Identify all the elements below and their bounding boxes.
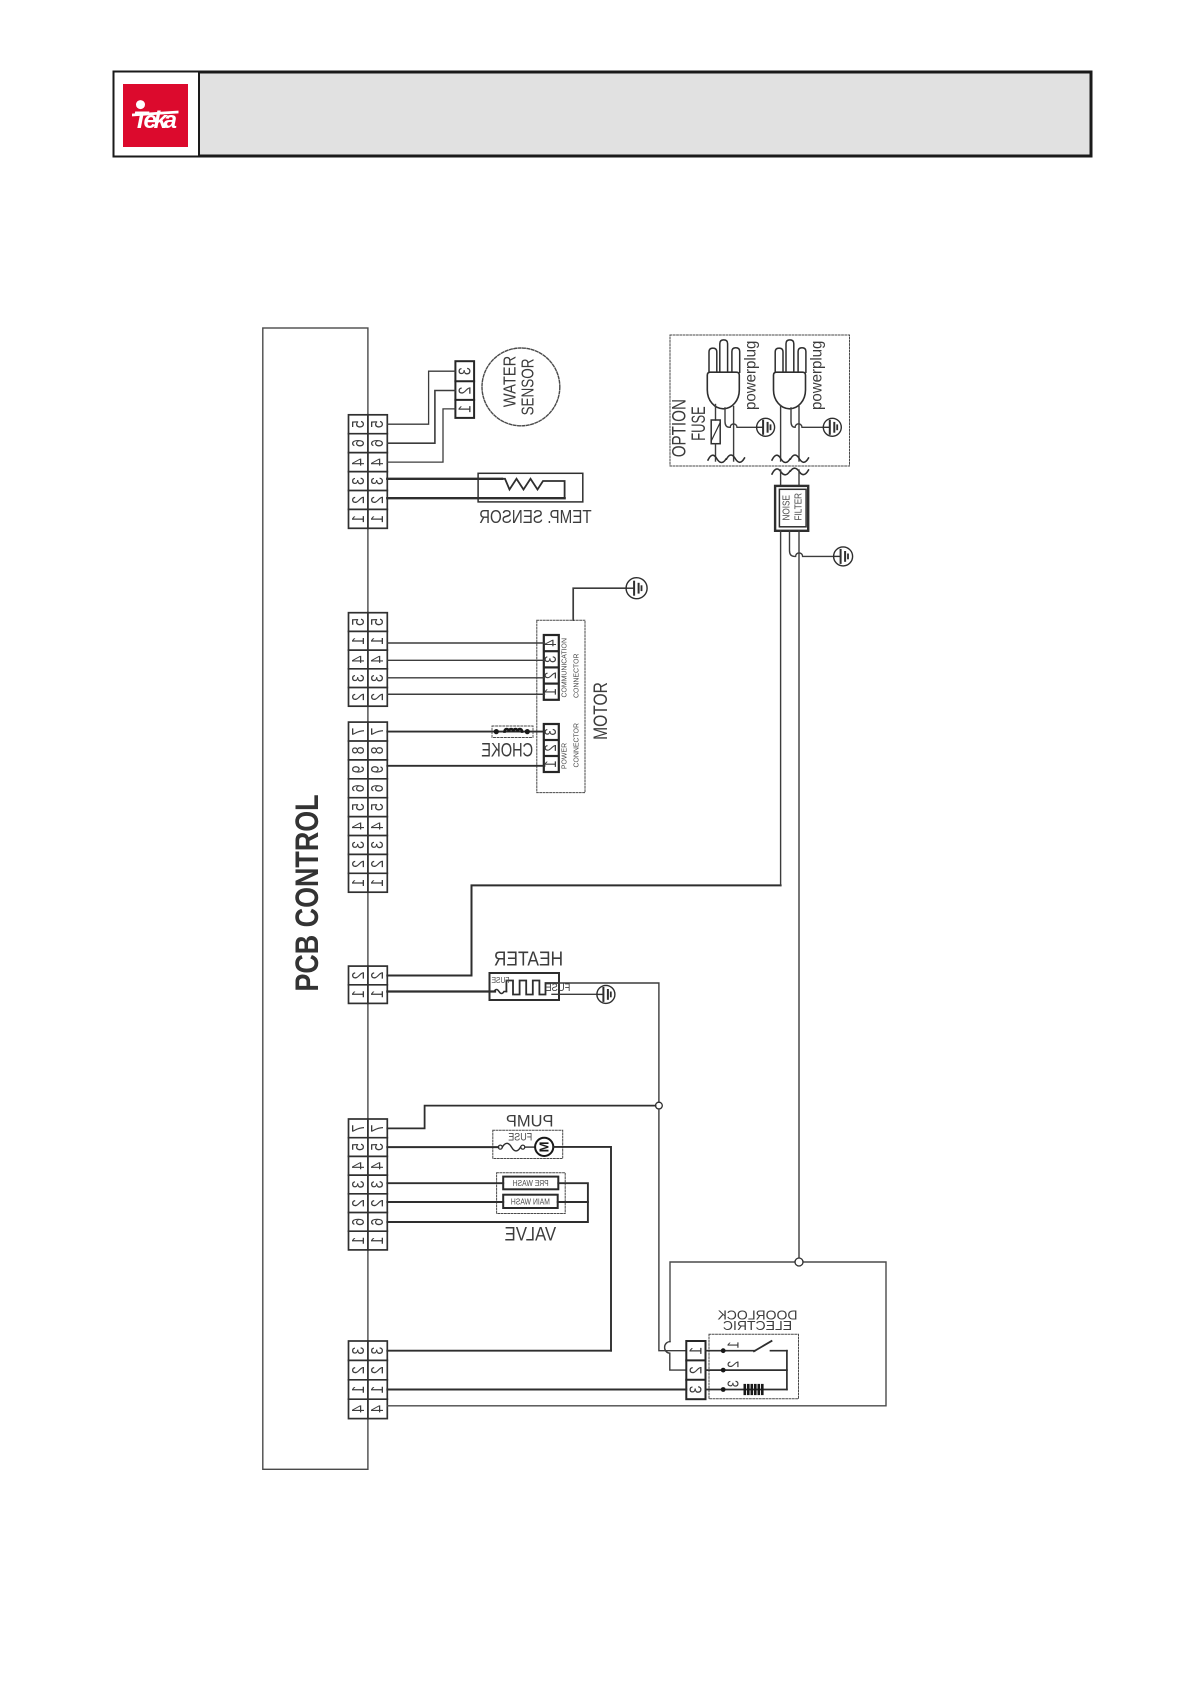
comm connector pin 1: [542, 688, 560, 695]
motor power connector (3 pins): [544, 724, 559, 772]
comm connector pin 4: [542, 640, 560, 647]
CN-D (heater) pin label 2 (board side): [348, 972, 368, 980]
wire CN-C pin9 to power pin1: [387, 765, 544, 767]
connector CN-D (heater) on PCB edge: [349, 966, 388, 1003]
CN-A (sensors) pin label 2 (board side): [348, 496, 368, 504]
label FUSE (heater right): [545, 982, 570, 994]
wire CN-B pin3 to comm pin2: [387, 677, 544, 679]
ground (powerplug 1): [757, 418, 775, 436]
svg-text:3: 3: [368, 1347, 388, 1355]
label CONNECTOR (power): [572, 723, 580, 768]
comm connector pin 2: [542, 672, 560, 679]
powerplug2 neutral lead: [798, 407, 800, 462]
motor communication connector (4 pins): [544, 635, 559, 700]
label WATER (water sensor): [500, 356, 519, 407]
doorlock pin label 1: [725, 1341, 743, 1348]
svg-text:6: 6: [368, 439, 388, 447]
Teka logo overline: [132, 111, 179, 117]
CN-B (motor communication) pin label 1 (cable side): [368, 637, 388, 645]
label FUSE (option): [689, 406, 710, 441]
svg-text:4: 4: [348, 656, 368, 664]
CN-A (sensors) pin label 4 (board side): [348, 458, 368, 466]
CN-D (heater) pin label 2 (cable side): [368, 972, 388, 980]
motor dashed enclosure: [537, 620, 585, 792]
powerplug1 lead below fuse: [715, 444, 717, 461]
svg-text:3: 3: [368, 1181, 388, 1189]
doorlock pin label 3: [725, 1380, 743, 1387]
CN-C (motor power / choke) pin label 6 (board side): [348, 784, 368, 792]
svg-text:4: 4: [348, 458, 368, 466]
doorlock connector pin 2: [686, 1366, 706, 1374]
svg-text:3: 3: [725, 1380, 743, 1387]
svg-text:5: 5: [368, 618, 388, 626]
svg-text:5: 5: [368, 1143, 388, 1151]
svg-text:Teka: Teka: [133, 107, 177, 134]
svg-text:3: 3: [348, 1347, 368, 1355]
svg-text:4: 4: [348, 1162, 368, 1170]
svg-text:7: 7: [348, 728, 368, 736]
CN-C (motor power / choke) pin label 5 (cable side): [368, 803, 388, 811]
junction node heater/pump feed: [656, 1102, 663, 1109]
CN-A (sensors) pin label 2 (cable side): [368, 496, 388, 504]
svg-text:WATER: WATER: [500, 356, 519, 407]
CN-B (motor communication) pin label 4 (cable side): [368, 656, 388, 664]
svg-text:1: 1: [348, 515, 368, 523]
label PRE WASH: [513, 1178, 549, 1188]
label NOISE: [781, 495, 792, 520]
svg-text:2: 2: [368, 1199, 388, 1207]
svg-text:POWER: POWER: [560, 743, 568, 769]
pump motor letter M: [537, 1141, 552, 1152]
powerplug1 line lead: [715, 405, 717, 421]
label powerplug (2): [808, 341, 826, 410]
svg-text:5: 5: [368, 420, 388, 428]
wire CN-C pin7 through choke to power pin3: [387, 731, 544, 733]
CN-E (pump / valve) pin label 2 (board side): [348, 1199, 368, 1207]
svg-text:powerplug: powerplug: [808, 341, 826, 410]
svg-text:PCB CONTROL: PCB CONTROL: [290, 794, 326, 991]
CN-D (heater) pin label 1 (cable side): [368, 990, 388, 998]
svg-text:1: 1: [368, 1237, 388, 1245]
CN-F (doorlock) pin label 4 (cable side): [368, 1405, 388, 1413]
wire noise filter to heater junction: [780, 531, 782, 886]
svg-text:2: 2: [348, 496, 368, 504]
CN-B (motor communication) pin label 3 (cable side): [368, 674, 388, 682]
svg-text:3: 3: [348, 674, 368, 682]
powerplug1 neutral lead: [733, 407, 735, 462]
svg-text:4: 4: [348, 822, 368, 830]
option fuse dashed box: [670, 335, 850, 466]
ground (noise filter): [834, 547, 853, 566]
CN-C (motor power / choke) pin label 3 (cable side): [368, 841, 388, 849]
powerplug 1 (option) prong right: [732, 348, 740, 373]
label TEMP. SENSOR: [479, 507, 592, 528]
choke terminal dot left: [494, 729, 499, 734]
CN-A (sensors) pin label 4 (cable side): [368, 458, 388, 466]
wire CN-E pin2 to main wash: [387, 1201, 503, 1203]
doorlock connector pin 1: [686, 1347, 706, 1355]
wire CN-E pin3 to pre wash: [387, 1182, 503, 1184]
CN-E (pump / valve) pin label 4 (cable side): [368, 1162, 388, 1170]
svg-text:1: 1: [368, 515, 388, 523]
svg-text:OPTION: OPTION: [668, 399, 690, 457]
wire CN-F pin1 to doorlock pin3: [387, 1389, 686, 1391]
CN-E (pump / valve) pin label 1 (board side): [348, 1237, 368, 1245]
CN-C (motor power / choke) pin label 8 (cable side): [368, 747, 388, 755]
heater thermal fuse symbol: [494, 990, 506, 994]
ground (heater): [597, 985, 615, 1003]
svg-text:1: 1: [725, 1341, 743, 1348]
water sensor body circle: [482, 348, 560, 426]
svg-text:8: 8: [348, 747, 368, 755]
Teka logo dot: [136, 100, 145, 109]
connector CN-E (pump / valve) on PCB edge: [349, 1119, 388, 1250]
svg-text:7: 7: [368, 1124, 388, 1132]
svg-text:2: 2: [348, 1199, 368, 1207]
water sensor connector pin 3: [455, 367, 475, 375]
svg-text:3: 3: [542, 656, 560, 663]
doorlock pin1 contact line: [706, 1350, 756, 1352]
doorlock pin2 dot: [721, 1368, 726, 1373]
powerplug 2 prong middle: [786, 340, 794, 372]
svg-text:PUMP: PUMP: [506, 1112, 554, 1130]
powerplug 2 prong left: [775, 348, 783, 372]
svg-text:4: 4: [368, 458, 388, 466]
pump fuse symbol: [498, 1145, 502, 1149]
svg-text:2: 2: [368, 1366, 388, 1374]
choke coil: [505, 729, 523, 732]
noise filter earth branch: [790, 531, 834, 557]
wire CN-E pin5 to pump fuse: [387, 1146, 498, 1148]
CN-E (pump / valve) pin label 5 (board side): [348, 1143, 368, 1151]
svg-text:6: 6: [368, 1218, 388, 1226]
mains cord into noise filter (left): [780, 470, 782, 486]
electric doorlock box: [387, 1262, 886, 1406]
powerplug2 earth lead to ground: [791, 408, 823, 427]
svg-text:1: 1: [368, 637, 388, 645]
connector CN-B (motor communication) on PCB edge: [349, 613, 388, 707]
svg-text:5: 5: [348, 420, 368, 428]
label FILTER: [793, 493, 804, 521]
label PCB CONTROL: [290, 794, 326, 991]
svg-text:5: 5: [348, 618, 368, 626]
CN-E (pump / valve) pin label 6 (board side): [348, 1218, 368, 1226]
label FUSE (pump): [508, 1132, 532, 1144]
CN-C (motor power / choke) pin label 8 (board side): [348, 747, 368, 755]
powerplug2 cable break: [772, 455, 809, 463]
svg-text:5: 5: [348, 1143, 368, 1151]
svg-text:1: 1: [348, 1237, 368, 1245]
connector CN-C (motor power / choke) on PCB edge: [349, 722, 388, 892]
wire heater to doorlock feed: [559, 983, 659, 1106]
mains cord break below option box: [772, 468, 809, 475]
noise filter inner box: [779, 489, 806, 527]
svg-text:FILTER: FILTER: [793, 493, 804, 521]
water sensor connector pin 2: [455, 387, 475, 395]
doorlock switch blade: [754, 1341, 772, 1351]
CN-C (motor power / choke) pin label 9 (cable side): [368, 765, 388, 773]
CN-B (motor communication) pin label 5 (board side): [348, 618, 368, 626]
doorlock pin1 fixed contact to bar: [771, 1350, 787, 1352]
svg-text:2: 2: [348, 972, 368, 980]
wire node down to doorlock pin1: [659, 1109, 686, 1351]
svg-text:4: 4: [348, 1405, 368, 1413]
svg-text:7: 7: [348, 1124, 368, 1132]
motor earth wire: [573, 588, 626, 620]
wire CN-A pin6 to water sensor pin2: [387, 391, 455, 444]
wire pump to doorlock pin3 riser: [553, 1147, 611, 1351]
svg-text:1: 1: [368, 879, 388, 887]
svg-text:FUSE: FUSE: [689, 406, 710, 441]
valve common return wire to CN-E pin6: [387, 1183, 588, 1222]
doorlock right bar: [786, 1351, 788, 1390]
doorlock pin label 2: [725, 1361, 743, 1368]
CN-C (motor power / choke) pin label 7 (cable side): [368, 728, 388, 736]
powerplug 1 (option) prong middle: [720, 340, 728, 372]
svg-text:6: 6: [348, 1218, 368, 1226]
CN-C (motor power / choke) pin label 1 (board side): [348, 879, 368, 887]
CN-C (motor power / choke) pin label 9 (board side): [348, 765, 368, 773]
svg-text:1: 1: [348, 879, 368, 887]
svg-text:9: 9: [348, 765, 368, 773]
svg-text:4: 4: [368, 1162, 388, 1170]
powerplug1 earth lead to ground: [725, 408, 757, 427]
heater element: [506, 981, 559, 995]
ground (motor frame): [626, 578, 647, 599]
CN-C (motor power / choke) pin label 6 (cable side): [368, 784, 388, 792]
label PUMP: [506, 1112, 554, 1130]
power connector pin 3: [542, 728, 560, 735]
CN-D (heater) pin label 1 (board side): [348, 990, 368, 998]
CN-B (motor communication) pin label 2 (board side): [348, 693, 368, 701]
CN-F (doorlock) pin label 1 (board side): [348, 1386, 368, 1394]
powerplug 2 prong right: [798, 348, 806, 373]
svg-text:COMMUNICATION: COMMUNICATION: [560, 638, 568, 698]
label OPTION: [668, 399, 690, 457]
CN-A (sensors) pin label 1 (board side): [348, 515, 368, 523]
svg-text:1: 1: [348, 637, 368, 645]
CN-A (sensors) pin label 5 (cable side): [368, 420, 388, 428]
comm connector pin 3: [542, 656, 560, 663]
wire node to CN-E pin7: [387, 1106, 655, 1129]
label VALVE: [505, 1223, 557, 1244]
CN-A (sensors) pin label 5 (board side): [348, 420, 368, 428]
power connector pin 1: [542, 760, 560, 767]
wire CN-B pin1 to comm pin4: [387, 642, 544, 644]
wire CN-A pin2 to temp sensor (bottom lead): [387, 497, 564, 499]
svg-text:5: 5: [368, 803, 388, 811]
svg-text:3: 3: [348, 1181, 368, 1189]
label SENSOR (water sensor): [519, 359, 538, 416]
doorlock connector (3 pins): [686, 1341, 705, 1399]
label MAIN WASH: [511, 1197, 550, 1207]
wire CN-A pin5 to water sensor pin3: [387, 371, 455, 424]
doorlock pin3 dot: [721, 1387, 726, 1392]
CN-F (doorlock) pin label 3 (cable side): [368, 1347, 388, 1355]
powerplug1 cable break: [708, 455, 745, 463]
label powerplug (1): [742, 341, 760, 410]
CN-E (pump / valve) pin label 7 (board side): [348, 1124, 368, 1132]
CN-A (sensors) pin label 3 (cable side): [368, 477, 388, 485]
powerplug 1 (option) body: [707, 372, 739, 409]
CN-C (motor power / choke) pin label 2 (board side): [348, 860, 368, 868]
doorlock connector pin 3: [686, 1386, 706, 1394]
svg-text:MAIN WASH: MAIN WASH: [511, 1197, 550, 1207]
CN-A (sensors) pin label 1 (cable side): [368, 515, 388, 523]
powerplug2 line lead: [780, 406, 782, 462]
svg-text:2: 2: [368, 693, 388, 701]
svg-text:3: 3: [455, 367, 475, 375]
svg-text:NOISE: NOISE: [781, 495, 792, 520]
svg-text:3: 3: [368, 841, 388, 849]
CN-C (motor power / choke) pin label 5 (board side): [348, 803, 368, 811]
pump motor circle: [535, 1138, 553, 1156]
CN-F (doorlock) pin label 4 (board side): [348, 1405, 368, 1413]
doorlock pin3 line: [706, 1389, 787, 1391]
CN-C (motor power / choke) pin label 1 (cable side): [368, 879, 388, 887]
power connector pin 2: [542, 744, 560, 751]
svg-text:powerplug: powerplug: [742, 341, 760, 410]
svg-text:2: 2: [686, 1366, 706, 1374]
wire CN-A pin4 to water sensor pin1: [387, 409, 455, 462]
svg-text:1: 1: [348, 1386, 368, 1394]
label POWER: [560, 743, 568, 769]
powerplug1 inline fuse: [711, 420, 720, 444]
label COMMUNICATION: [560, 638, 568, 698]
temp sensor outer case: [478, 473, 583, 502]
svg-text:5: 5: [348, 803, 368, 811]
svg-text:8: 8: [368, 747, 388, 755]
svg-text:2: 2: [348, 1366, 368, 1374]
label HEATER: [494, 948, 563, 971]
Teka logo red square: [123, 84, 188, 147]
CN-A (sensors) pin label 6 (cable side): [368, 439, 388, 447]
svg-text:3: 3: [368, 477, 388, 485]
pump dashed enclosure: [493, 1130, 563, 1158]
pre wash valve box: [503, 1177, 558, 1190]
svg-text:1: 1: [368, 1386, 388, 1394]
svg-text:3: 3: [348, 841, 368, 849]
svg-text:PRE WASH: PRE WASH: [513, 1178, 549, 1188]
svg-text:FUSE: FUSE: [508, 1132, 532, 1144]
svg-text:2: 2: [542, 672, 560, 679]
svg-text:3: 3: [348, 477, 368, 485]
CN-C (motor power / choke) pin label 7 (board side): [348, 728, 368, 736]
label CHOKE: [481, 738, 533, 761]
svg-text:2: 2: [368, 496, 388, 504]
svg-text:2: 2: [348, 860, 368, 868]
svg-text:MOTOR: MOTOR: [589, 682, 611, 740]
svg-text:3: 3: [686, 1386, 706, 1394]
wire fuse to pump motor: [525, 1146, 535, 1148]
water sensor connector (3 pins): [455, 361, 474, 418]
CN-B (motor communication) pin label 4 (board side): [348, 656, 368, 664]
svg-text:2: 2: [542, 744, 560, 751]
CN-E (pump / valve) pin label 3 (board side): [348, 1181, 368, 1189]
doorlock pin2 line: [706, 1369, 787, 1371]
svg-text:6: 6: [348, 784, 368, 792]
svg-text:TEMP. SENSOR: TEMP. SENSOR: [479, 507, 592, 528]
svg-text:4: 4: [368, 822, 388, 830]
CN-E (pump / valve) pin label 6 (cable side): [368, 1218, 388, 1226]
CN-C (motor power / choke) pin label 4 (board side): [348, 822, 368, 830]
CN-A (sensors) pin label 6 (board side): [348, 439, 368, 447]
CN-F (doorlock) pin label 1 (cable side): [368, 1386, 388, 1394]
svg-text:4: 4: [368, 1405, 388, 1413]
svg-text:3: 3: [368, 674, 388, 682]
main wash right stub: [558, 1201, 588, 1203]
svg-text:SENSOR: SENSOR: [519, 359, 538, 416]
wire noise filter to doorlock (long): [798, 531, 800, 1262]
wire CN-D pin2 up to mains junction: [387, 885, 780, 975]
doorlock switch dashed box: [709, 1334, 799, 1399]
svg-text:HEATER: HEATER: [494, 948, 563, 971]
CN-A (sensors) pin label 3 (board side): [348, 477, 368, 485]
svg-text:1: 1: [686, 1347, 706, 1355]
CN-C (motor power / choke) pin label 3 (board side): [348, 841, 368, 849]
CN-E (pump / valve) pin label 7 (cable side): [368, 1124, 388, 1132]
svg-text:CONNECTOR: CONNECTOR: [572, 723, 580, 768]
svg-text:CHOKE: CHOKE: [481, 738, 533, 761]
powerplug 2 body: [774, 372, 806, 409]
svg-text:FUSE: FUSE: [491, 975, 509, 985]
svg-text:CONNECTOR: CONNECTOR: [572, 654, 580, 699]
svg-text:1: 1: [368, 990, 388, 998]
CN-E (pump / valve) pin label 2 (cable side): [368, 1199, 388, 1207]
CN-E (pump / valve) pin label 1 (cable side): [368, 1237, 388, 1245]
ground (powerplug 2): [823, 418, 841, 436]
CN-B (motor communication) pin label 1 (board side): [348, 637, 368, 645]
svg-text:M: M: [537, 1141, 552, 1152]
svg-text:2: 2: [725, 1361, 743, 1368]
label DOORLOCK: [717, 1308, 797, 1323]
svg-text:6: 6: [368, 784, 388, 792]
svg-text:2: 2: [368, 972, 388, 980]
CN-B (motor communication) pin label 5 (cable side): [368, 618, 388, 626]
CN-F (doorlock) pin label 2 (board side): [348, 1366, 368, 1374]
svg-text:1: 1: [348, 990, 368, 998]
choke terminal dot right: [525, 729, 530, 734]
connector CN-F (doorlock) on PCB edge: [349, 1341, 388, 1419]
label CONNECTOR (comm): [572, 654, 580, 699]
CN-F (doorlock) pin label 2 (cable side): [368, 1366, 388, 1374]
wire CN-B pin4 to comm pin3: [387, 659, 544, 661]
choke dashed outline: [492, 726, 533, 738]
heater case: [490, 973, 560, 1000]
mains cord into noise filter (right): [798, 470, 800, 486]
doorlock pin1 dot: [721, 1348, 726, 1353]
CN-B (motor communication) pin label 3 (board side): [348, 674, 368, 682]
valve dashed enclosure: [497, 1173, 566, 1214]
CN-C (motor power / choke) pin label 4 (cable side): [368, 822, 388, 830]
wire CN-F pin3 to pump riser: [387, 1350, 611, 1352]
wire heater to ground: [552, 993, 597, 995]
svg-text:FUSE: FUSE: [545, 982, 570, 994]
CN-B (motor communication) pin label 2 (cable side): [368, 693, 388, 701]
CN-E (pump / valve) pin label 5 (cable side): [368, 1143, 388, 1151]
header outer frame: [114, 72, 1092, 157]
label MOTOR: [589, 682, 611, 740]
CN-E (pump / valve) pin label 4 (board side): [348, 1162, 368, 1170]
wire CN-B pin2 to comm pin1: [387, 693, 544, 695]
svg-text:VALVE: VALVE: [505, 1223, 557, 1244]
noise filter outer box: [775, 486, 808, 531]
powerplug 1 (option) prong left: [709, 348, 717, 372]
label ELECTRIC: [723, 1318, 792, 1333]
svg-text:7: 7: [368, 728, 388, 736]
svg-text:1: 1: [455, 405, 475, 413]
svg-text:9: 9: [368, 765, 388, 773]
